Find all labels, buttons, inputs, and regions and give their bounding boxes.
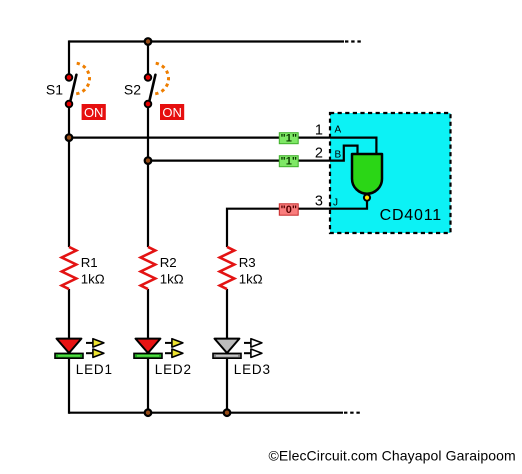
svg-text:S1: S1 [46,82,63,98]
svg-text:ON: ON [84,105,104,120]
svg-text:"1": "1" [281,156,298,168]
svg-text:"0": "0" [281,204,298,216]
svg-text:1kΩ: 1kΩ [160,272,184,287]
svg-text:3: 3 [315,193,323,209]
svg-text:R2: R2 [160,255,177,270]
svg-text:J: J [333,197,338,208]
svg-text:A: A [335,124,342,135]
svg-text:1: 1 [315,122,323,138]
svg-text:R1: R1 [81,255,98,270]
svg-text:1kΩ: 1kΩ [81,272,105,287]
svg-text:1kΩ: 1kΩ [239,272,263,287]
svg-text:ON: ON [162,105,182,120]
svg-text:LED2: LED2 [155,362,192,377]
svg-text:S2: S2 [124,82,141,98]
svg-text:©ElecCircuit.com Chayapol Gara: ©ElecCircuit.com Chayapol Garaipoom [269,448,516,464]
svg-text:R3: R3 [239,255,256,270]
svg-text:LED1: LED1 [76,362,113,377]
svg-text:2: 2 [315,145,323,161]
svg-text:CD4011: CD4011 [380,207,442,224]
svg-text:LED3: LED3 [234,362,271,377]
svg-text:"1": "1" [281,133,298,145]
svg-text:B: B [335,150,342,161]
